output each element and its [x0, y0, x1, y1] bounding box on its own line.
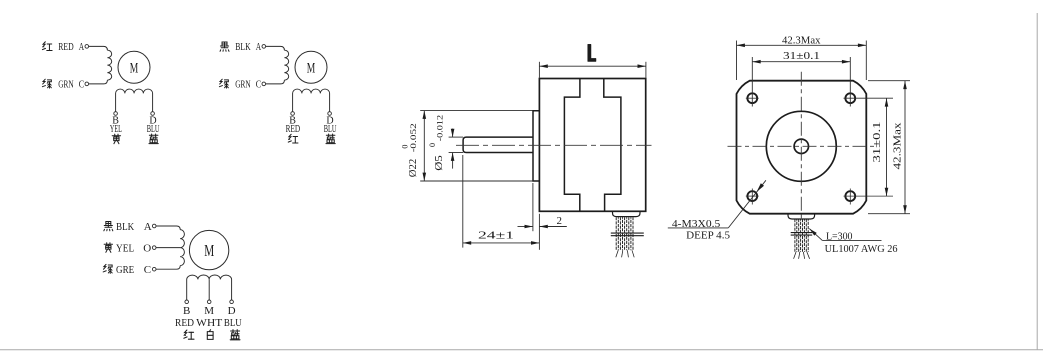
dimension L label [588, 44, 596, 61]
wire A2 to winding [266, 46, 285, 50]
svg-text:31±0.1: 31±0.1 [783, 50, 820, 62]
vertical centerline front view [800, 72, 802, 221]
pilot circle D22 [766, 111, 836, 181]
svg-text:A: A [79, 42, 85, 53]
hole centerline crosses [746, 97, 759, 99]
motor front view flange outline [737, 81, 867, 214]
terminal M3t [207, 300, 211, 304]
svg-text:24±1: 24±1 [478, 230, 514, 242]
mounting hole bottom-right [845, 191, 855, 201]
dimension L line [539, 65, 646, 67]
terminal A2 [262, 45, 266, 49]
svg-text:YEL: YEL [110, 124, 122, 135]
motor M3 [189, 230, 228, 269]
wire M3 center tap [208, 279, 210, 300]
svg-text:BLK: BLK [235, 42, 251, 53]
horizontal centerline front view [728, 145, 876, 147]
wire C3 [156, 266, 180, 270]
terminal B3 [185, 300, 189, 304]
terminal A1 [85, 45, 89, 49]
terminal C1 [85, 82, 89, 86]
terminal O3 (center tap) [152, 246, 156, 250]
svg-text:B: B [183, 305, 190, 317]
terminal D3 [230, 300, 234, 304]
svg-text:A: A [144, 221, 152, 233]
winding L1a (phase A-C) [107, 50, 111, 80]
svg-text:GRN: GRN [235, 79, 250, 90]
table cell border right [1036, 13, 1038, 350]
dimension D22 boss diameter [423, 111, 425, 182]
svg-text:A: A [256, 42, 262, 53]
winding L2a (phase A-C) [284, 50, 288, 80]
label YEL O - motor 3 [104, 243, 112, 253]
dimension D5 shaft diameter [452, 129, 454, 138]
dimension 24+-1 shaft length [463, 242, 540, 244]
motor M1 [118, 51, 150, 83]
lead wire grommet side view [613, 211, 641, 216]
shaft centerline [456, 144, 652, 146]
wire O3 center tap [156, 247, 180, 249]
svg-text:D: D [228, 305, 236, 317]
shaft circle D5 [794, 139, 808, 153]
svg-text:Ø5: Ø5 [434, 155, 445, 171]
label GRN C - motor 1 [42, 79, 51, 88]
stator lamination left profile [564, 79, 580, 211]
svg-text:BLU: BLU [324, 124, 337, 135]
svg-text:C: C [256, 79, 262, 90]
svg-text:C: C [79, 79, 85, 90]
svg-text:RED: RED [286, 124, 301, 135]
svg-text:BLU: BLU [147, 124, 160, 135]
wire A1 to winding [89, 46, 108, 50]
terminal B1 [114, 112, 118, 116]
svg-text:31±0.1: 31±0.1 [871, 122, 883, 163]
svg-text:M: M [204, 241, 214, 260]
svg-text:RED: RED [175, 317, 194, 329]
mounting hole top-right [845, 93, 855, 103]
motor M2 [295, 51, 327, 83]
dimension 31+-0.1 right [886, 98, 888, 196]
motor body side view outline [539, 79, 645, 212]
label GRN C - motor 2 [219, 79, 228, 88]
svg-text:42.3Max: 42.3Max [892, 122, 904, 170]
lead wire bundle front view [794, 219, 796, 252]
stator lamination right profile [604, 79, 621, 211]
svg-text:BLU: BLU [224, 317, 242, 329]
label BLK A - motor 2 [220, 42, 229, 51]
winding L3a (A-O-C with center tap) [180, 230, 184, 266]
table cell border bottom [0, 349, 1043, 351]
svg-text:2: 2 [557, 215, 563, 227]
label GRE C - motor 3 [103, 264, 112, 273]
winding L3b (B-M-D with center tap) [187, 275, 232, 300]
svg-text:O: O [143, 242, 151, 254]
dimension 2 boss thickness [518, 226, 533, 228]
label BLK A - motor 3 [104, 221, 113, 230]
svg-text:WHT: WHT [196, 317, 222, 329]
svg-text:GRE: GRE [116, 264, 134, 276]
svg-text:M: M [307, 61, 316, 77]
lead wire bundle side view [615, 217, 617, 250]
svg-text:C: C [144, 264, 151, 276]
svg-text:M: M [204, 305, 214, 317]
svg-text:BLK: BLK [116, 221, 134, 233]
svg-text:YEL: YEL [116, 242, 134, 254]
terminal B2 [291, 112, 295, 116]
wire A3 [156, 226, 180, 230]
dimension 42.3Max right [904, 81, 906, 214]
svg-text:-0.052: -0.052 [409, 123, 418, 152]
pilot boss [533, 111, 539, 181]
svg-text:-0.012: -0.012 [436, 115, 445, 142]
terminal C3 [152, 267, 156, 271]
terminal D2 [328, 112, 332, 116]
svg-text:RED: RED [58, 42, 73, 53]
terminal D1 [151, 112, 155, 116]
svg-text:0: 0 [428, 143, 437, 147]
label RED A - motor 1 [42, 42, 52, 51]
wire C1 from winding [89, 80, 108, 84]
lead wire grommet front view [788, 214, 815, 219]
terminal A3 [152, 224, 156, 228]
svg-text:M: M [130, 61, 139, 77]
svg-text:42.3Max: 42.3Max [782, 35, 821, 47]
mounting hole bottom-left [747, 191, 757, 201]
terminal C2 [262, 82, 266, 86]
wire C2 from winding [266, 80, 285, 84]
shaft [463, 137, 533, 152]
winding L2b (phase B-D) [293, 89, 330, 112]
svg-text:Ø22: Ø22 [408, 159, 419, 178]
svg-text:GRN: GRN [58, 79, 73, 90]
svg-text:UL1007 AWG 26: UL1007 AWG 26 [825, 243, 898, 255]
winding L1b (phase B-D) [116, 89, 153, 112]
mounting hole top-left [747, 93, 757, 103]
svg-text:DEEP 4.5: DEEP 4.5 [686, 229, 730, 241]
